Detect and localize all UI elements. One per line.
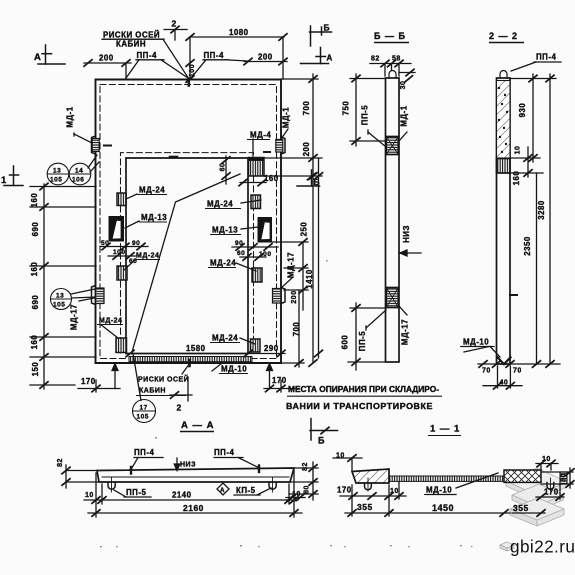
svg-text:2350: 2350	[523, 236, 532, 256]
svg-text:ПП-4: ПП-4	[204, 51, 224, 60]
svg-text:2140: 2140	[172, 491, 192, 500]
svg-text:А — А: А — А	[181, 420, 215, 431]
svg-text:10: 10	[542, 456, 551, 463]
svg-text:700: 700	[292, 322, 301, 337]
svg-text:50: 50	[101, 240, 109, 247]
svg-text:ПП-4: ПП-4	[137, 51, 157, 60]
svg-text:160: 160	[30, 193, 39, 208]
svg-text:1580: 1580	[186, 344, 206, 353]
svg-text:МД-17: МД-17	[401, 319, 410, 345]
svg-text:ВАНИИ И ТРАНСПОРТИРОВКЕ: ВАНИИ И ТРАНСПОРТИРОВКЕ	[286, 402, 433, 411]
svg-text:150: 150	[31, 362, 40, 377]
svg-text:160: 160	[264, 174, 279, 183]
svg-text:82: 82	[371, 56, 380, 63]
svg-text:17: 17	[140, 405, 148, 412]
svg-text:200: 200	[99, 54, 114, 63]
svg-text:2160: 2160	[183, 503, 204, 513]
svg-text:МД-10: МД-10	[221, 365, 247, 374]
svg-text:2: 2	[177, 403, 182, 413]
svg-text:1410: 1410	[305, 269, 314, 289]
svg-text:1080: 1080	[229, 28, 249, 37]
svg-text:МД-1: МД-1	[400, 105, 409, 126]
svg-text:МД-13: МД-13	[141, 213, 167, 222]
svg-text:ПП-5: ПП-5	[358, 331, 367, 351]
svg-text:А: А	[34, 52, 41, 63]
svg-text:70: 70	[513, 368, 522, 375]
svg-text:КАБИН: КАБИН	[116, 40, 146, 49]
svg-text:170: 170	[81, 377, 96, 386]
svg-text:КАБИН: КАБИН	[139, 388, 166, 395]
svg-text:МД-24: МД-24	[139, 186, 165, 195]
svg-text:700: 700	[302, 101, 311, 116]
svg-text:10: 10	[515, 146, 522, 155]
svg-text:160: 160	[30, 262, 39, 277]
svg-text:160: 160	[512, 171, 521, 186]
svg-text:10: 10	[390, 488, 399, 495]
svg-text:13: 13	[56, 293, 64, 300]
svg-text:60: 60	[237, 250, 245, 257]
svg-text:Б: Б	[318, 436, 325, 446]
svg-text:90: 90	[132, 240, 140, 247]
svg-text:МД-24: МД-24	[99, 318, 122, 325]
svg-text:750: 750	[342, 101, 351, 116]
svg-text:Б: Б	[314, 177, 321, 187]
svg-text:МД-24: МД-24	[210, 259, 236, 268]
svg-text:14: 14	[75, 168, 83, 175]
svg-text:690: 690	[31, 295, 40, 310]
svg-text:gbi22.ru: gbi22.ru	[510, 537, 575, 557]
svg-text:МД-1: МД-1	[66, 106, 75, 127]
svg-text:МД-13: МД-13	[212, 226, 238, 235]
svg-text:250: 250	[300, 222, 309, 237]
svg-text:100: 100	[113, 249, 126, 256]
svg-text:60: 60	[220, 163, 227, 172]
svg-text:82: 82	[57, 458, 64, 467]
svg-text:ПП-4: ПП-4	[134, 448, 154, 457]
svg-text:100: 100	[189, 64, 196, 77]
svg-text:ПП-5: ПП-5	[361, 105, 370, 125]
svg-text:10: 10	[85, 492, 94, 499]
svg-text:160: 160	[30, 335, 39, 350]
svg-text:690: 690	[31, 222, 40, 237]
svg-text:РИСКИ ОСЕЙ: РИСКИ ОСЕЙ	[138, 375, 189, 384]
svg-text:ПП-5: ПП-5	[126, 488, 146, 497]
svg-text:30: 30	[400, 81, 407, 90]
svg-text:80: 80	[304, 485, 311, 494]
svg-text:106: 106	[72, 177, 84, 184]
svg-text:105: 105	[53, 302, 65, 309]
svg-text:170: 170	[337, 486, 352, 495]
svg-text:2: 2	[172, 19, 177, 29]
svg-text:МД-1: МД-1	[282, 107, 291, 128]
svg-text:70: 70	[482, 368, 491, 375]
svg-text:РИСКИ ОСЕЙ: РИСКИ ОСЕЙ	[103, 31, 160, 40]
svg-text:МД-4: МД-4	[250, 131, 271, 140]
svg-text:ПП-4: ПП-4	[536, 53, 556, 62]
svg-text:105: 105	[50, 177, 62, 184]
svg-text:МД-17: МД-17	[70, 304, 79, 330]
svg-text:200: 200	[258, 53, 273, 62]
svg-text:355: 355	[357, 502, 373, 512]
svg-text:МД-24: МД-24	[207, 200, 233, 209]
svg-text:58: 58	[392, 56, 401, 63]
svg-text:200: 200	[291, 290, 298, 303]
svg-text:290: 290	[264, 344, 279, 353]
svg-text:МД-24: МД-24	[136, 253, 159, 260]
svg-text:170: 170	[272, 376, 287, 385]
svg-text:МД-10: МД-10	[463, 338, 489, 347]
svg-text:40: 40	[500, 380, 509, 387]
svg-text:930: 930	[518, 103, 527, 118]
svg-text:200: 200	[302, 142, 311, 157]
svg-text:МД-10: МД-10	[426, 486, 452, 495]
svg-text:1 — 1: 1 — 1	[430, 424, 460, 435]
svg-text:МД-17: МД-17	[287, 252, 296, 278]
svg-text:Б: Б	[324, 23, 331, 33]
svg-text:ПП-4: ПП-4	[214, 448, 234, 457]
svg-text:90: 90	[235, 240, 243, 247]
svg-text:А: А	[220, 487, 225, 494]
svg-text:600: 600	[341, 335, 350, 350]
svg-text:НИЗ: НИЗ	[402, 225, 411, 243]
svg-text:10: 10	[336, 453, 345, 460]
svg-text:А: А	[327, 54, 333, 63]
svg-text:Б — Б: Б — Б	[374, 31, 406, 41]
svg-text:1450: 1450	[432, 503, 454, 513]
svg-text:82: 82	[302, 462, 309, 471]
svg-text:КП-5: КП-5	[236, 486, 256, 495]
svg-text:1: 1	[1, 175, 7, 186]
svg-text:2 — 2: 2 — 2	[489, 31, 518, 41]
svg-text:105: 105	[137, 414, 149, 421]
svg-text:МД-24: МД-24	[212, 334, 238, 343]
svg-text:10: 10	[292, 491, 301, 498]
svg-text:355: 355	[513, 503, 529, 513]
svg-text:13: 13	[53, 168, 61, 175]
svg-text:НИЗ: НИЗ	[180, 462, 196, 469]
svg-text:80: 80	[561, 473, 568, 482]
svg-text:3280: 3280	[537, 200, 546, 220]
svg-text:170: 170	[544, 488, 559, 497]
svg-text:100: 100	[259, 251, 272, 258]
svg-text:МЕСТА ОПИРАНИЯ ПРИ СКЛАДИРО-: МЕСТА ОПИРАНИЯ ПРИ СКЛАДИРО-	[288, 385, 439, 394]
